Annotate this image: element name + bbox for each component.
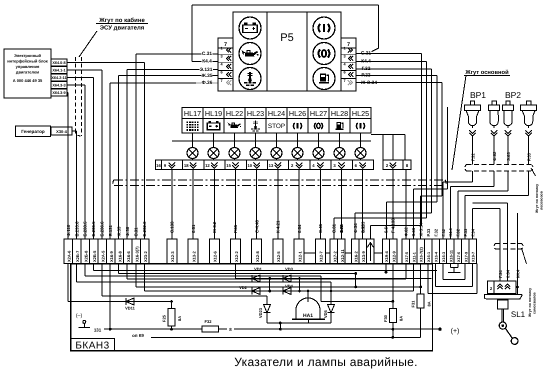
- links VD rows: [269, 279, 271, 292]
- svg-text:Х12-3: Х12-3: [170, 251, 175, 262]
- wire label Zh.35 left: [202, 72, 213, 77]
- svg-text:0.64: 0.64: [384, 224, 389, 233]
- svg-text:Х13-2: Х13-2: [191, 251, 196, 262]
- svg-text:0.62: 0.62: [360, 224, 365, 233]
- connector triple X16-2 X13-9 arrow: [351, 239, 374, 264]
- BP sensor wires to connectors: [472, 171, 474, 182]
- svg-text:Р.33: Р.33: [426, 228, 431, 237]
- icon oil pressure: [239, 43, 261, 65]
- chain line harness band: [114, 179, 445, 181]
- diode VD1: [252, 275, 260, 282]
- icon HL28 fuel: [336, 122, 341, 128]
- icon parking brake: [313, 43, 335, 65]
- svg-text:F32: F32: [205, 319, 213, 324]
- svg-text:VD11: VD11: [125, 306, 136, 311]
- svg-text:С.31: С.31: [134, 227, 139, 237]
- P5 left connector: [218, 38, 233, 91]
- svg-text:Р.65: Р.65: [233, 224, 238, 233]
- svg-text:(+): (+): [451, 327, 460, 335]
- svg-text:Х16-3(7): Х16-3(7): [134, 246, 139, 262]
- wire label R.33 right: [361, 72, 372, 77]
- wire 8-cell to X17-5: [405, 170, 407, 240]
- svg-text:4: 4: [343, 63, 346, 67]
- svg-text:1: 1: [343, 46, 345, 50]
- svg-text:Х2А-6: Х2А-6: [66, 250, 71, 262]
- svg-text:Ж-3.2: Ж-3.2: [212, 221, 217, 234]
- svg-text:8А: 8А: [177, 316, 182, 321]
- svg-text:К4.4: К4.4: [202, 59, 212, 65]
- icon HL25 brake2: [360, 123, 362, 129]
- diode VD5: [327, 304, 334, 312]
- svg-text:HL28: HL28: [331, 109, 348, 118]
- svg-text:Х2Б-7: Х2Б-7: [75, 250, 80, 262]
- svg-text:Х17-2: Х17-2: [332, 251, 337, 262]
- SL1 feed wires: [472, 209, 474, 239]
- svg-text:Х16-3: Х16-3: [442, 252, 446, 262]
- svg-text:Х12-5: Х12-5: [276, 251, 281, 262]
- wire X19-4 down: [385, 264, 387, 273]
- svg-text:HL26: HL26: [289, 109, 306, 118]
- svg-text:Х12-9: Х12-9: [392, 251, 397, 262]
- joint brackets with common node: [449, 264, 451, 268]
- svg-text:Х2Б-8: Х2Б-8: [83, 250, 88, 262]
- svg-text:4: 4: [312, 163, 315, 168]
- svg-text:Х16-7(2): Х16-7(2): [420, 246, 424, 262]
- dashed harness band right: [467, 164, 532, 166]
- lamp supply rail: [172, 140, 371, 142]
- svg-text:Генератор: Генератор: [21, 129, 45, 134]
- buzzer HA1: [296, 298, 320, 319]
- svg-text:131: 131: [94, 328, 102, 333]
- right dense connector group X16/X17: [402, 239, 476, 264]
- icon battery warning: [239, 17, 261, 39]
- wire F.36 left: [110, 82, 196, 84]
- svg-text:F30: F30: [383, 314, 388, 322]
- icon HL26 brake: [297, 123, 299, 129]
- svg-text:18: 18: [184, 163, 189, 168]
- svg-text:13: 13: [269, 163, 274, 168]
- connector pair X17-2 X12-11: [330, 239, 345, 264]
- svg-text:X64.2-11: X64.2-11: [51, 76, 66, 80]
- svg-text:Ф.62: Ф.62: [492, 151, 497, 161]
- svg-text:Ф.36: Ф.36: [125, 226, 130, 236]
- svg-text:VD1: VD1: [254, 267, 263, 272]
- rail branch right to cell 2: [371, 134, 405, 136]
- wire label Zh-E.34 right: [361, 79, 377, 84]
- svg-text:X64.3-3: X64.3-3: [52, 84, 65, 88]
- svg-text:HL25: HL25: [352, 109, 369, 118]
- svg-text:БКАН3: БКАН3: [75, 341, 109, 352]
- wire K4.4 left / top loop: [192, 60, 218, 62]
- svg-text:Х12-11: Х12-11: [340, 249, 345, 262]
- diode VD4: [283, 287, 291, 294]
- svg-text:8: 8: [229, 327, 232, 332]
- svg-text:Ф.34: Ф.34: [353, 223, 358, 233]
- svg-text:Х23-2: Х23-2: [143, 251, 148, 262]
- wire label K4.4 right: [361, 58, 372, 63]
- svg-text:Электронный: Электронный: [14, 53, 42, 58]
- svg-text:8: 8: [406, 163, 409, 168]
- svg-text:Я.131: Я.131: [108, 224, 113, 236]
- P5 right connector: [341, 38, 356, 91]
- dashed harness band SL1: [496, 243, 522, 245]
- svg-text:3: 3: [343, 55, 345, 59]
- icon HL17 glow grid: [187, 121, 189, 123]
- svg-text:Г.32: Г.32: [433, 228, 438, 236]
- svg-text:Х17-9: Х17-9: [464, 252, 468, 262]
- svg-text:P5: P5: [280, 32, 293, 44]
- warning lamp row HL boxes: [182, 108, 371, 119]
- fuel level sensor SL1: [488, 281, 516, 294]
- wire X12-2 to VD chain: [235, 264, 237, 279]
- svg-text:7: 7: [220, 79, 222, 83]
- svg-text:2: 2: [291, 163, 294, 168]
- svg-text:X30-4: X30-4: [56, 129, 67, 134]
- wire Zh.35 left: [119, 75, 218, 77]
- icon HL19 battery: [207, 123, 219, 130]
- svg-text:VD23: VD23: [258, 307, 263, 318]
- label SL1: [510, 310, 527, 319]
- svg-text:SL1: SL1: [511, 310, 526, 319]
- svg-text:3: 3: [220, 55, 222, 59]
- sensor BP2a: [506, 101, 510, 105]
- fuse F30: [392, 264, 394, 309]
- icon brake warning: [313, 17, 335, 39]
- svg-text:Э.45: Э.45: [318, 223, 323, 233]
- svg-text:Х16-4: Х16-4: [435, 251, 439, 262]
- svg-text:HL17: HL17: [184, 109, 201, 118]
- svg-text:15: 15: [226, 163, 231, 168]
- svg-text:Жгут по кабине: Жгут по кабине: [98, 17, 145, 24]
- svg-text:управления: управления: [16, 64, 40, 69]
- svg-text:Г.34: Г.34: [498, 270, 503, 278]
- svg-text:Г.32: Г.32: [471, 153, 476, 161]
- wire under HA1: [267, 322, 331, 324]
- svg-text:Х12-6: Х12-6: [213, 251, 218, 262]
- svg-text:Х13-9: Х13-9: [361, 251, 366, 262]
- svg-text:8А: 8А: [399, 316, 404, 321]
- svg-text:Х12-7: Х12-7: [319, 251, 324, 262]
- svg-text:Х16-11: Х16-11: [449, 250, 453, 262]
- svg-text:(–): (–): [76, 313, 83, 319]
- left wire bundle verticals: [67, 93, 69, 240]
- wires from strip to middle connectors: [171, 170, 173, 240]
- left dense connector group X2/X16: [64, 239, 149, 264]
- connector strip under lamps: [155, 160, 373, 169]
- diode VD11: [126, 298, 134, 305]
- sensor BP1a: [470, 101, 474, 105]
- svg-text:Х16-6: Х16-6: [126, 251, 131, 262]
- svg-text:Х16-1: Х16-1: [427, 252, 431, 262]
- svg-text:Жгут по потолку: Жгут по потолку: [528, 288, 532, 318]
- wire label K4.4 left: [202, 58, 213, 63]
- svg-text:F31: F31: [411, 300, 416, 308]
- electronic engine control unit box: [4, 49, 51, 98]
- generator connector X30-4: [51, 127, 72, 135]
- svg-text:Б.236.6: Б.236.6: [100, 221, 105, 237]
- svg-text:Б.233.6: Б.233.6: [74, 221, 79, 237]
- svg-text:интерфейсный блок: интерфейсный блок: [7, 59, 48, 64]
- svg-text:С.133: С.133: [170, 221, 175, 233]
- svg-text:HL23: HL23: [247, 109, 264, 118]
- individual middle connectors X12/X13: [167, 239, 177, 264]
- wire label S.31 right: [361, 50, 372, 55]
- svg-text:самосвалов: самосвалов: [533, 292, 537, 314]
- svg-text:1: 1: [220, 46, 222, 50]
- svg-text:Ж.35: Ж.35: [200, 73, 212, 79]
- sensor BP2b: [526, 101, 530, 105]
- svg-text:лесовозов: лесовозов: [540, 190, 544, 210]
- icon HL22 oil: [230, 124, 238, 127]
- icon HL23 temp: [255, 121, 256, 127]
- svg-text:BP2: BP2: [505, 90, 521, 100]
- fuse F31: [420, 264, 422, 295]
- svg-text:VD5: VD5: [323, 309, 328, 318]
- fuse F32: [202, 326, 219, 332]
- BKAN3 label box: [71, 339, 115, 351]
- connector pair X19-4 X12-9: [382, 239, 397, 264]
- svg-text:Ф.36: Ф.36: [202, 80, 213, 86]
- svg-text:4.22: 4.22: [339, 224, 344, 233]
- svg-text:0.64: 0.64: [297, 224, 302, 233]
- svg-text:А 000 446 49 35: А 000 446 49 35: [13, 78, 43, 83]
- svg-text:3: 3: [333, 163, 336, 168]
- wires from P5 right connector: [356, 53, 421, 55]
- svg-text:Жгут по потолку: Жгут по потолку: [535, 184, 539, 214]
- svg-text:Ж.35: Ж.35: [116, 226, 121, 237]
- warning lamps (circle-X): [192, 141, 194, 147]
- svg-text:Х12-8: Х12-8: [255, 251, 260, 262]
- svg-text:Э.63: Э.63: [411, 227, 416, 236]
- icon HL27 parking: [317, 123, 320, 128]
- icon fuel level: [313, 68, 335, 90]
- svg-text:Х19-4: Х19-4: [384, 251, 389, 262]
- svg-text:HL27: HL27: [310, 109, 327, 118]
- svg-text:X64.3-9: X64.3-9: [52, 91, 65, 95]
- svg-text:9: 9: [164, 163, 167, 168]
- svg-text:HL19: HL19: [205, 109, 222, 118]
- svg-text:0.61: 0.61: [191, 224, 196, 233]
- svg-text:F25: F25: [162, 314, 167, 322]
- svg-text:7: 7: [343, 79, 345, 83]
- svg-text:12: 12: [205, 163, 210, 168]
- fuse F25: [171, 302, 173, 309]
- svg-text:Указатели и лампы аварийные.: Указатели и лампы аварийные.: [234, 355, 417, 369]
- svg-text:7: 7: [224, 42, 227, 48]
- svg-text:Г-4.133: Г-4.133: [391, 218, 396, 233]
- svg-text:10: 10: [247, 163, 252, 168]
- svg-text:Ф.110: Ф.110: [66, 224, 71, 236]
- svg-text:Ж-Э.34: Ж-Э.34: [419, 222, 424, 237]
- svg-text:К4.4: К4.4: [516, 269, 521, 278]
- wire label E.131 left: [199, 66, 213, 71]
- svg-text:HL22: HL22: [226, 109, 243, 118]
- wire to arrow cell: [299, 252, 393, 254]
- internal wiring fan BKAN3: [92, 264, 94, 271]
- icon coolant temp: [239, 68, 261, 90]
- wires from ECU pins: [67, 62, 145, 64]
- generator box: [16, 126, 51, 137]
- wire S.31 left: [136, 53, 218, 55]
- svg-text:С.31: С.31: [202, 51, 212, 57]
- diode VD2: [252, 287, 260, 294]
- svg-text:Х16-8: Х16-8: [117, 251, 122, 262]
- svg-text:Э.131: Э.131: [200, 67, 213, 73]
- positive supply wire: [104, 328, 202, 330]
- instrument cluster P5 box: [233, 12, 341, 91]
- svg-text:6: 6: [355, 163, 358, 168]
- wire label F.36 left: [202, 79, 213, 84]
- svg-text:С-4.46: С-4.46: [254, 219, 259, 233]
- svg-text:НА1: НА1: [303, 313, 313, 319]
- svg-text:VD2: VD2: [239, 285, 248, 290]
- svg-text:Х16-9: Х16-9: [109, 251, 114, 262]
- harness boundary dashes (cab harness): [75, 57, 77, 131]
- svg-text:Х17-6: Х17-6: [457, 252, 461, 262]
- svg-text:К-4.21: К-4.21: [276, 220, 281, 233]
- svg-text:С.31: С.31: [332, 223, 337, 233]
- svg-text:2: 2: [386, 163, 389, 168]
- svg-text:Х12-2: Х12-2: [234, 251, 239, 262]
- BKAN3 unit box: [71, 264, 433, 351]
- wire label G.32 right: [361, 66, 372, 71]
- svg-text:X64.0-8: X64.0-8: [52, 61, 65, 65]
- sensor BP1b: [492, 101, 496, 105]
- svg-text:Б.232.0: Б.232.0: [142, 221, 147, 237]
- svg-text:ЭСУ двигателя: ЭСУ двигателя: [100, 25, 145, 32]
- svg-text:6: 6: [343, 71, 345, 75]
- svg-text:двигателем: двигателем: [16, 70, 39, 75]
- wire E.131 left: [127, 69, 218, 71]
- svg-text:STOP: STOP: [268, 123, 285, 130]
- diode VD3: [283, 275, 291, 282]
- svg-text:Х2А-5: Х2А-5: [100, 250, 105, 262]
- svg-text:4: 4: [220, 63, 223, 67]
- connector strip piece 2-8: [383, 160, 411, 169]
- ECU connector pin boxes X64: [51, 59, 67, 66]
- svg-text:Х19-7: Х19-7: [472, 252, 476, 262]
- svg-text:Б.233.5: Б.233.5: [83, 221, 88, 237]
- svg-text:Р.33: Р.33: [527, 152, 532, 161]
- svg-text:Х2Б-5: Х2Б-5: [92, 250, 97, 262]
- wire generator to bundle: [72, 130, 77, 132]
- wire label S.31 left: [202, 51, 213, 56]
- svg-text:Х16-2: Х16-2: [353, 251, 358, 262]
- svg-text:VD4: VD4: [285, 284, 294, 289]
- svg-text:Х17-5: Х17-5: [405, 252, 409, 262]
- svg-text:HL24: HL24: [268, 109, 285, 118]
- svg-text:VD3: VD3: [285, 267, 294, 272]
- svg-text:Э.63: Э.63: [506, 152, 511, 161]
- svg-text:оп К9: оп К9: [132, 333, 144, 338]
- svg-text:16: 16: [156, 163, 161, 168]
- svg-text:BP1: BP1: [470, 90, 486, 100]
- svg-text:Жгут основной: Жгут основной: [464, 69, 509, 76]
- svg-text:0.64: 0.64: [506, 269, 511, 278]
- right wire bundle verticals: [420, 54, 422, 226]
- svg-text:Х11-1: Х11-1: [412, 252, 416, 262]
- svg-text:8А: 8А: [427, 301, 432, 306]
- svg-text:Б.236.5: Б.236.5: [91, 221, 96, 237]
- svg-text:Х12-1: Х12-1: [297, 251, 302, 262]
- svg-text:7: 7: [347, 42, 350, 48]
- svg-text:X64.1-1: X64.1-1: [52, 69, 65, 73]
- diode VD23: [266, 300, 268, 305]
- svg-text:6: 6: [220, 71, 222, 75]
